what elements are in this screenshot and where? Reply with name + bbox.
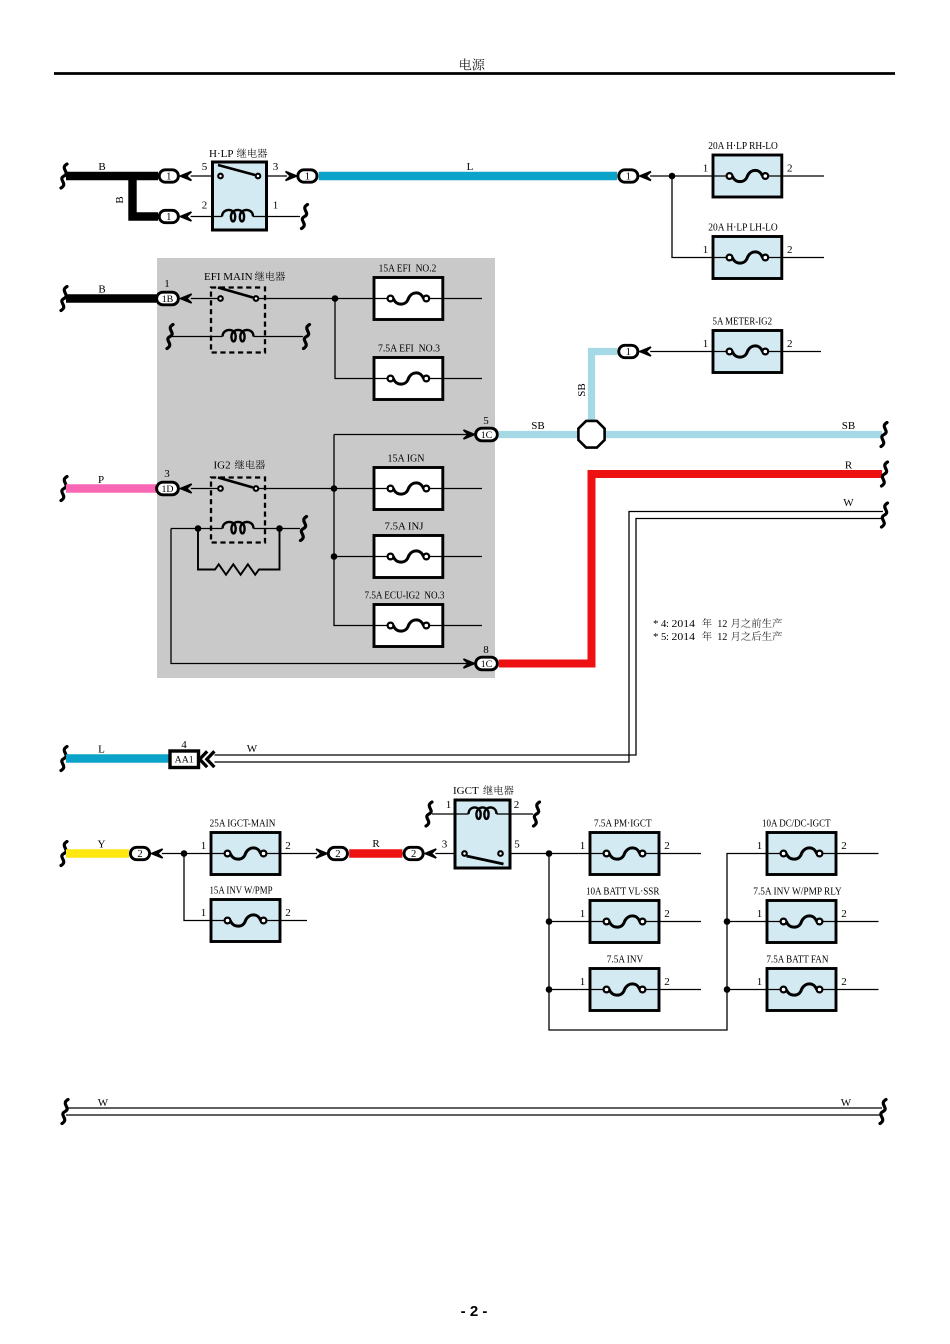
wire label SB (vertical): [576, 383, 588, 396]
junction: [724, 918, 731, 925]
svg-text:2: 2: [664, 840, 670, 852]
svg-text:1: 1: [757, 908, 763, 920]
relay name label EFI MAIN 继电器: [204, 271, 285, 283]
gray highlight region (engine room relay block): [157, 258, 495, 678]
svg-text:P: P: [98, 474, 104, 486]
svg-text:2: 2: [285, 907, 291, 919]
wire: after fuse F6: [443, 556, 482, 558]
connector 1 (fuse side of L wire): [619, 170, 651, 183]
junction: [332, 295, 339, 302]
svg-text:7.5A BATT FAN: 7.5A BATT FAN: [766, 955, 828, 966]
svg-text:2: 2: [514, 799, 520, 811]
svg-text:B: B: [98, 161, 105, 173]
svg-text:8: 8: [483, 644, 489, 656]
svg-text:1D: 1D: [161, 484, 173, 495]
header rule line: [54, 72, 895, 75]
svg-text:L: L: [467, 161, 474, 173]
relay H·LP 继电器: [202, 148, 279, 230]
junction: [669, 173, 676, 180]
svg-text:1B: 1B: [162, 294, 174, 305]
wire: long return to connector 1C pin 8: [171, 529, 469, 664]
svg-text:SB: SB: [531, 420, 544, 432]
wire: after fuse F10: [280, 920, 307, 922]
svg-text:7.5A EFI NO.3: 7.5A EFI NO.3: [378, 344, 440, 355]
svg-text:1: 1: [703, 163, 709, 175]
junction: [181, 850, 188, 857]
svg-text:2: 2: [841, 840, 847, 852]
wire: after fuse F4: [443, 378, 482, 380]
fuse F7: 7.5A ECU-IG2&#160; NO.3: [365, 591, 445, 647]
junction: [546, 986, 553, 993]
junction: [276, 525, 283, 532]
note *4: produced before 12/2014: [653, 618, 782, 630]
wire: after fuse F8: [782, 351, 821, 353]
svg-text:7.5A INV: 7.5A INV: [607, 955, 644, 966]
connector 1D pin 3: [157, 468, 192, 495]
svg-text:1: 1: [703, 244, 709, 256]
svg-text:1: 1: [446, 799, 452, 811]
junction: [195, 525, 202, 532]
wire R (thick red) from 1C-8 to right edge: [499, 460, 888, 664]
svg-text:3: 3: [164, 468, 170, 480]
fuse F16: 7.5A BATT FAN: [757, 955, 847, 1011]
svg-text:IGCT: IGCT: [453, 785, 479, 797]
wire B (thick black) to EFI main relay: [61, 284, 156, 311]
svg-text:1: 1: [166, 212, 171, 223]
svg-text:R: R: [845, 460, 853, 472]
fuse F14: 10A DC/DC-IGCT: [757, 819, 847, 875]
svg-text:7.5A INV W/PMP RLY: 7.5A INV W/PMP RLY: [753, 887, 842, 898]
fuse F3: 15A EFI&#160; NO.2: [374, 264, 443, 320]
svg-text:EFI MAIN: EFI MAIN: [204, 271, 253, 283]
svg-text:W: W: [843, 497, 854, 509]
svg-text:B: B: [98, 284, 105, 296]
wire: after fuse F5: [443, 488, 482, 490]
svg-text:- 2 -: - 2 -: [461, 1303, 488, 1320]
svg-text:SB: SB: [842, 420, 855, 432]
wire: coil row with breaks (EFI MAIN): [167, 325, 310, 349]
wire: IGCT coil pin 1 to break: [426, 802, 455, 826]
svg-text:*: *: [653, 618, 659, 630]
svg-text::: :: [666, 619, 669, 630]
wire: relay pin 2 to connector: [191, 216, 213, 218]
svg-text:2: 2: [787, 244, 793, 256]
fuse F2: 20A H·LP LH-LO: [703, 223, 793, 279]
svg-text:1: 1: [201, 907, 207, 919]
svg-text:W: W: [841, 1097, 852, 1109]
wire R (thick red, short): [349, 838, 402, 854]
connector 2 (battery side): [130, 847, 162, 860]
connector 1C pin 5: [464, 415, 498, 441]
wire: after fuse F3: [443, 298, 482, 300]
svg-text:2: 2: [841, 908, 847, 920]
svg-text:2: 2: [411, 849, 416, 860]
wire: after fuse F13: [659, 989, 701, 991]
wire: IG2 relay to fuse trunk: [259, 435, 469, 626]
relay IGCT 继电器: [442, 785, 521, 868]
relay name label H·LP 继电器: [209, 148, 267, 160]
svg-text:R: R: [372, 838, 380, 850]
double chevron (connector mate mark): [200, 751, 215, 767]
wire: connector 1D to relay switch: [191, 488, 218, 490]
relay EFI MAIN 继电器 (dashed): [204, 271, 285, 353]
wire: relay pin 3 to connector: [267, 175, 288, 177]
connector 1B pin 1: [157, 278, 192, 305]
wire: after fuse F15: [836, 921, 879, 923]
fuse F12: 10A BATT VL·SSR: [580, 887, 670, 943]
svg-text:15A INV W/PMP: 15A INV W/PMP: [210, 886, 273, 897]
svg-text:2: 2: [335, 849, 340, 860]
svg-text:12: 12: [717, 619, 727, 630]
connector 1C pin 8: [464, 644, 498, 670]
wire: after fuse F12: [659, 921, 701, 923]
wire W (hollow) from right edge to connector AA1: [215, 497, 888, 762]
wire: IG2 coil row: [171, 517, 307, 541]
svg-text:IG2: IG2: [214, 460, 231, 472]
wire SB vertical branch to meter fuse: [576, 352, 617, 435]
svg-text:2014: 2014: [672, 619, 696, 630]
connector AA1 pin 4: [170, 739, 214, 768]
fuse F5: 15A IGN: [374, 454, 443, 510]
svg-text:1: 1: [580, 908, 586, 920]
wire L (thick teal) to connector AA1: [61, 744, 170, 771]
svg-text:25A IGCT-MAIN: 25A IGCT-MAIN: [210, 819, 276, 830]
svg-text:15A IGN: 15A IGN: [388, 454, 425, 465]
svg-text:W: W: [247, 743, 258, 755]
svg-text:2: 2: [841, 976, 847, 988]
relay name label IG2 继电器: [214, 460, 266, 472]
wire: connector to relay pin 5: [191, 175, 213, 177]
relay IG2 继电器 (dashed): [211, 460, 265, 543]
wire Y (thick yellow): [61, 839, 129, 866]
svg-text:2: 2: [137, 849, 142, 860]
fuse F15: 7.5A INV W/PMP RLY: [753, 887, 846, 943]
svg-text:W: W: [98, 1097, 109, 1109]
junction (octagon splice): [578, 421, 604, 448]
svg-text:AA1: AA1: [175, 755, 194, 766]
svg-text:3: 3: [273, 161, 279, 173]
wire W (hollow) bottom bus: [62, 1097, 886, 1124]
wire: connector to fuse 5A METER-IG2: [650, 351, 713, 353]
svg-text:2: 2: [202, 200, 208, 212]
wire L (thick teal) headlamp feed: [319, 161, 617, 176]
svg-text:2: 2: [787, 338, 793, 350]
wire: IGCT coil pin 2 to break: [510, 802, 540, 826]
svg-text:1: 1: [166, 171, 171, 182]
wire SB (light blue) from 1C-5 to right edge: [499, 420, 887, 447]
wire: after fuse F2: [782, 257, 824, 259]
svg-text:*: *: [653, 631, 659, 643]
svg-text:B: B: [114, 196, 126, 203]
svg-text:Y: Y: [98, 839, 106, 851]
wire P (thick pink) to IG2 relay: [61, 474, 156, 501]
junction: [331, 553, 338, 560]
wire: fuse F9 to connector: [280, 853, 317, 855]
wire: after fuse F7: [443, 625, 482, 627]
svg-text:1: 1: [273, 200, 279, 212]
svg-text:2: 2: [787, 163, 793, 175]
svg-text::: :: [666, 632, 669, 643]
wire: after fuse F1: [782, 175, 824, 177]
junction: [331, 485, 338, 492]
svg-text:20A H·LP LH-LO: 20A H·LP LH-LO: [708, 223, 778, 234]
junction: [546, 918, 553, 925]
fuse F8: 5A METER-IG2: [703, 317, 793, 373]
wire: after fuse F14: [836, 853, 879, 855]
fuse F13: 7.5A INV: [580, 955, 670, 1011]
svg-text:15A EFI NO.2: 15A EFI NO.2: [379, 264, 437, 275]
svg-text:7.5A ECU-IG2 NO.3: 7.5A ECU-IG2 NO.3: [365, 591, 445, 602]
svg-text:2: 2: [285, 840, 291, 852]
connector 2 (after 25A fuse): [316, 847, 347, 860]
fuse F4: 7.5A EFI&#160; NO.3: [374, 344, 443, 400]
wire: connector 1B to relay switch: [191, 298, 218, 300]
wire: relay pin 1 to break: [267, 205, 308, 229]
wire: connector to H·LP fuses with junction: [650, 173, 713, 258]
svg-text:10A DC/DC-IGCT: 10A DC/DC-IGCT: [762, 819, 831, 830]
svg-text:1: 1: [580, 976, 586, 988]
page title 电源 (power source): [460, 58, 484, 70]
connector 1 (to H·LP relay pin 2): [159, 210, 191, 223]
wire: after fuse F16: [836, 989, 879, 991]
svg-text:1C: 1C: [481, 430, 493, 441]
fuse F6: 7.5A INJ: [374, 522, 443, 578]
fuse F10: 15A INV W/PMP: [201, 886, 291, 942]
svg-text:H·LP: H·LP: [209, 148, 233, 160]
svg-text:5: 5: [514, 839, 520, 851]
svg-text:1: 1: [757, 976, 763, 988]
svg-text:3: 3: [442, 839, 448, 851]
wire: connector to IGCT relay pin 3: [435, 853, 455, 855]
junction: [546, 850, 553, 857]
wire: IGCT relay pin 5 to fuse bank: [510, 850, 767, 1030]
wire: after fuse F11: [659, 853, 701, 855]
svg-text:5: 5: [483, 415, 489, 427]
fuse F11: 7.5A PM·IGCT: [580, 819, 670, 875]
junction: [724, 986, 731, 993]
svg-text:2: 2: [664, 976, 670, 988]
svg-text:SB: SB: [576, 383, 588, 396]
wire: thick black battery wire B to connector (with branch): [61, 161, 158, 217]
svg-text:5A METER-IG2: 5A METER-IG2: [713, 317, 773, 328]
connector 1 (headlamp feed, left): [286, 170, 317, 183]
connector 1 (meter fuse): [619, 345, 651, 358]
fuse F9: 25A IGCT-MAIN: [201, 819, 291, 875]
svg-text:1C: 1C: [481, 659, 493, 670]
wire: relay to fuse junction: [259, 295, 374, 378]
svg-text:10A BATT VL·SSR: 10A BATT VL·SSR: [586, 887, 660, 898]
svg-text:L: L: [98, 744, 105, 756]
note *5: produced after 12/2014: [653, 631, 782, 643]
svg-text:1: 1: [626, 347, 631, 358]
wire: connector to 25A fuse with branch: [162, 850, 211, 920]
svg-text:5: 5: [202, 161, 208, 173]
connector 2 (relay side): [404, 847, 436, 860]
resistor (parallel with IG2 coil): [198, 529, 280, 575]
svg-text:1: 1: [201, 840, 207, 852]
svg-text:1: 1: [580, 840, 586, 852]
svg-text:12: 12: [717, 632, 727, 643]
fuse F1: 20A H·LP RH-LO: [703, 141, 793, 197]
svg-text:2: 2: [664, 908, 670, 920]
svg-text:1: 1: [703, 338, 709, 350]
svg-text:1: 1: [305, 171, 310, 182]
svg-text:7.5A INJ: 7.5A INJ: [385, 522, 424, 533]
svg-text:1: 1: [757, 840, 763, 852]
wire label B (vertical): [114, 196, 126, 203]
connector 1 (to H·LP relay pin 5): [159, 170, 191, 183]
svg-text:1: 1: [164, 278, 170, 290]
svg-text:7.5A PM·IGCT: 7.5A PM·IGCT: [594, 819, 652, 830]
svg-text:1: 1: [626, 171, 631, 182]
svg-text:2014: 2014: [672, 632, 696, 643]
relay name label IGCT 继电器: [453, 785, 514, 797]
svg-text:4: 4: [181, 739, 187, 751]
svg-text:20A H·LP RH-LO: 20A H·LP RH-LO: [708, 141, 778, 152]
